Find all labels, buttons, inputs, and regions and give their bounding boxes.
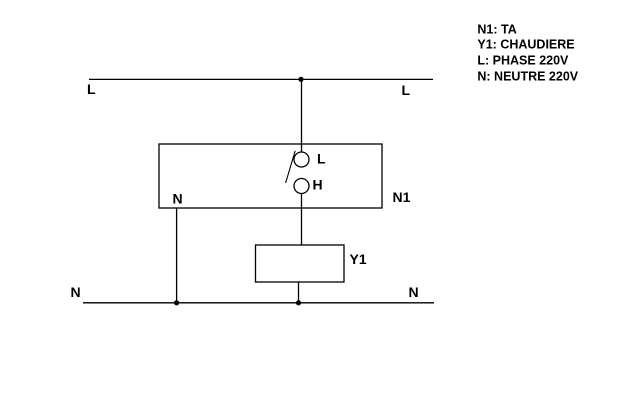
wire N neutral bottom horizontal: [83, 302, 434, 304]
svg-text:N1: N1: [393, 189, 411, 205]
wire from switch H down to Y1 coil: [301, 194, 303, 246]
node junction on L wire: [298, 77, 303, 82]
svg-text:Y1: Y1: [350, 251, 367, 267]
switch lever (open contact): [286, 151, 296, 183]
svg-text:L: L: [87, 81, 96, 97]
svg-text:N: N: [173, 191, 183, 207]
wire L phase top horizontal: [89, 78, 433, 80]
svg-text:N: N: [409, 284, 419, 300]
svg-text:N1: TA: N1: TA: [477, 23, 516, 37]
terminal circle L of switch: [294, 152, 309, 167]
svg-text:L: L: [402, 82, 411, 98]
node junction neutral-left: [174, 300, 179, 305]
svg-text:H: H: [313, 177, 323, 193]
svg-text:L: L: [317, 151, 326, 167]
svg-text:Y1: CHAUDIERE: Y1: CHAUDIERE: [477, 38, 574, 52]
thermostat N1 box: [159, 144, 382, 208]
node junction neutral-Y1: [296, 300, 301, 305]
svg-text:N: NEUTRE 220V: N: NEUTRE 220V: [477, 70, 578, 84]
wire N from box bottom down to neutral: [176, 208, 178, 303]
wire from L junction down to switch contact L: [301, 79, 303, 153]
svg-text:L: PHASE 220V: L: PHASE 220V: [477, 54, 569, 68]
terminal circle H of switch: [294, 179, 309, 194]
wire from Y1 bottom to neutral: [298, 282, 300, 303]
svg-text:N: N: [71, 284, 81, 300]
boiler coil Y1 box: [256, 245, 345, 282]
